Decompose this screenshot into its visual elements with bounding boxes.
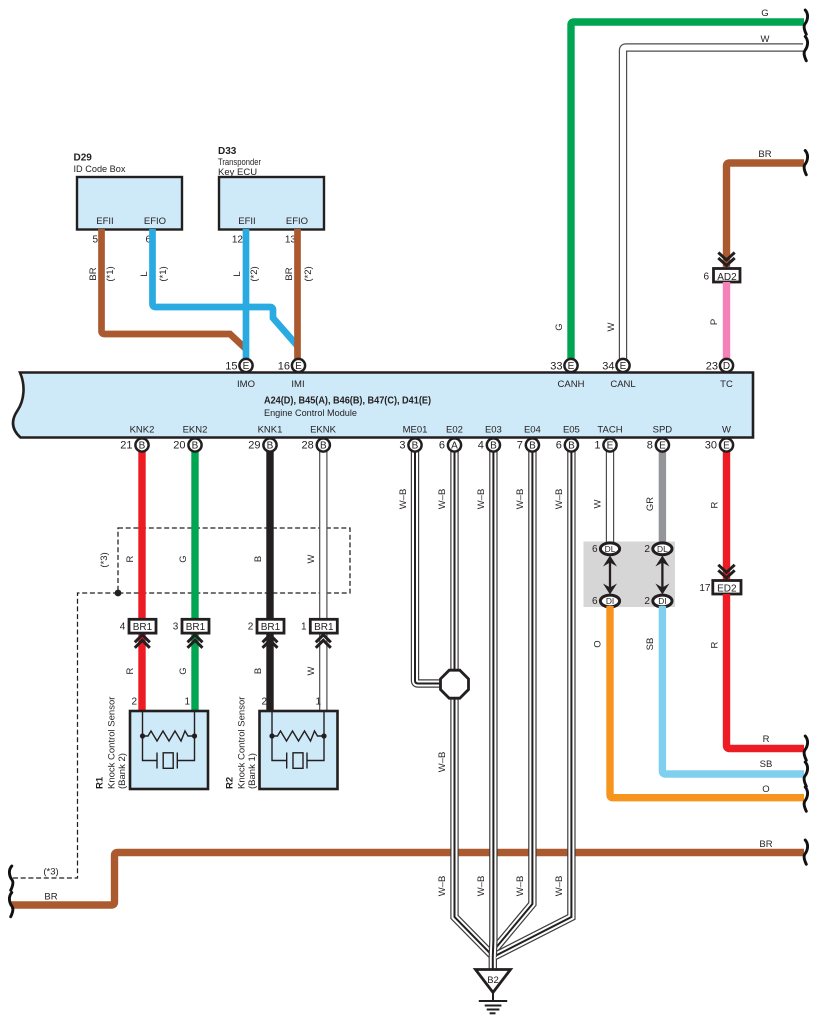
- svg-text:IMI: IMI: [291, 379, 304, 390]
- svg-text:GR: GR: [645, 497, 656, 511]
- svg-text:6: 6: [439, 440, 445, 452]
- svg-text:ED2: ED2: [717, 583, 737, 594]
- wire B KNK1: [266, 445, 273, 711]
- wire O from DI to page edge: [610, 606, 804, 798]
- svg-text:W–B: W–B: [437, 876, 448, 897]
- break mark SB: [804, 762, 808, 786]
- pin circle 7 B: [517, 438, 539, 451]
- svg-text:5: 5: [92, 235, 98, 246]
- wire R from ED2 to page edge: [727, 594, 805, 749]
- svg-text:E02: E02: [446, 425, 463, 436]
- svg-text:29: 29: [248, 440, 260, 452]
- svg-text:DI: DI: [658, 596, 666, 606]
- svg-text:TACH: TACH: [597, 425, 622, 436]
- svg-text:L: L: [232, 271, 243, 276]
- svg-text:BR1: BR1: [314, 622, 334, 633]
- svg-text:SB: SB: [760, 759, 773, 770]
- svg-text:EFIO: EFIO: [144, 216, 166, 227]
- chevron arrow BR1-3: [188, 635, 203, 648]
- svg-text:DL: DL: [657, 544, 668, 554]
- svg-text:7: 7: [517, 440, 523, 452]
- junction octagon: [441, 670, 469, 698]
- svg-text:BR: BR: [88, 267, 99, 280]
- svg-text:E: E: [607, 441, 614, 452]
- svg-text:W–B: W–B: [437, 752, 448, 773]
- svg-text:B2: B2: [487, 975, 499, 986]
- pin circle 6 A: [439, 438, 461, 451]
- wire W CANL to page edge (white wire): [623, 48, 803, 361]
- svg-text:R: R: [710, 501, 721, 508]
- svg-text:12: 12: [232, 235, 244, 246]
- pin circle 28 B: [302, 438, 330, 451]
- svg-text:E: E: [243, 361, 250, 372]
- svg-text:2: 2: [644, 596, 650, 607]
- break mark BR top right: [804, 151, 808, 175]
- wire W-B below junction to ground: [455, 696, 493, 970]
- svg-text:E03: E03: [485, 425, 502, 436]
- svg-text:34: 34: [602, 361, 614, 373]
- dashed shield wire to page edge: [12, 593, 118, 878]
- svg-text:3: 3: [399, 440, 405, 452]
- pin circle 20 B: [173, 438, 201, 451]
- svg-text:W: W: [722, 425, 731, 436]
- svg-text:DI: DI: [606, 596, 614, 606]
- svg-text:(Bank 1): (Bank 1): [247, 753, 258, 789]
- svg-text:R: R: [125, 555, 136, 562]
- svg-text:B: B: [253, 668, 264, 674]
- svg-text:23: 23: [706, 361, 718, 373]
- svg-text:B: B: [412, 441, 419, 452]
- wire W TACH: [606, 445, 614, 545]
- pin circle 15 E: [225, 359, 252, 373]
- piezo element inside R1: [143, 736, 195, 769]
- wire BR bottom to right page edge: [11, 853, 804, 906]
- svg-text:4: 4: [120, 622, 126, 633]
- svg-text:B: B: [490, 441, 497, 452]
- svg-text:ME01: ME01: [403, 425, 428, 436]
- break mark BR bottom right: [804, 840, 808, 864]
- break mark R: [804, 736, 808, 760]
- svg-text:R: R: [125, 667, 136, 674]
- connector BR1 pin 3: [173, 619, 209, 633]
- pin circle 3 B: [399, 438, 421, 451]
- wire P from AD2 to TC: [723, 282, 730, 360]
- svg-text:2: 2: [248, 622, 254, 633]
- pin circle 16 E: [278, 359, 305, 373]
- chevron arrow into ED2: [718, 565, 734, 578]
- svg-text:B: B: [253, 556, 264, 562]
- svg-text:6: 6: [556, 440, 562, 452]
- svg-text:DL: DL: [605, 544, 616, 554]
- wire G CANH to page edge: [571, 22, 804, 360]
- wire R KNK2: [138, 445, 145, 711]
- svg-text:G: G: [178, 555, 189, 562]
- wire GR SPD: [659, 445, 666, 545]
- wire BR to AD2: [727, 163, 805, 267]
- wire W-B ME01: [415, 445, 442, 684]
- wire W EKNK (white wire): [319, 445, 327, 711]
- svg-text:(*3): (*3): [99, 552, 110, 567]
- svg-text:2: 2: [261, 697, 267, 708]
- svg-text:3: 3: [173, 622, 179, 633]
- svg-text:15: 15: [225, 361, 237, 373]
- pin circle 1 E (TACH): [594, 438, 616, 451]
- svg-text:EKN2: EKN2: [183, 425, 208, 436]
- svg-text:A: A: [451, 441, 458, 452]
- connector DL pin 2 (SPD): [644, 543, 672, 555]
- chevron arrow into AD2: [718, 253, 734, 266]
- svg-text:B: B: [320, 441, 327, 452]
- svg-text:O: O: [762, 784, 769, 795]
- svg-text:KNK2: KNK2: [130, 425, 155, 436]
- svg-text:EFIO: EFIO: [286, 216, 308, 227]
- pin circle 23 D: [706, 359, 733, 373]
- svg-text:B: B: [267, 441, 274, 452]
- connector ED2 pin 17: [699, 581, 741, 595]
- wire R from W pin to ED2: [723, 445, 730, 580]
- svg-text:E: E: [568, 361, 575, 372]
- svg-text:W–B: W–B: [554, 876, 565, 897]
- svg-text:W–B: W–B: [515, 489, 526, 510]
- svg-text:2: 2: [644, 544, 650, 555]
- svg-text:E: E: [295, 361, 302, 372]
- connector DI pin 6 (TACH): [592, 595, 620, 607]
- svg-text:W: W: [306, 666, 317, 675]
- svg-text:BR: BR: [758, 149, 771, 160]
- chevron arrow BR1-1: [316, 635, 331, 648]
- pin circle 21 B: [120, 438, 148, 451]
- svg-text:B: B: [529, 441, 536, 452]
- svg-text:20: 20: [173, 440, 185, 452]
- label L (*2): [232, 266, 260, 281]
- svg-text:30: 30: [705, 440, 717, 452]
- pin circle 8 E (SPD): [647, 438, 669, 451]
- svg-text:EFII: EFII: [96, 216, 113, 227]
- svg-text:W–B: W–B: [515, 876, 526, 897]
- svg-text:D: D: [723, 361, 730, 372]
- break mark BR bottom left: [9, 893, 13, 917]
- svg-text:IMO: IMO: [237, 379, 255, 390]
- wire L (*2) from D33 EFII to ECM pin15 IMO: [243, 229, 250, 360]
- svg-text:D29: D29: [74, 153, 93, 164]
- svg-text:BR1: BR1: [186, 622, 206, 633]
- svg-text:Engine Control Module: Engine Control Module: [264, 408, 357, 419]
- dashed shield box: [118, 528, 350, 593]
- chevron arrow BR1-2: [263, 635, 278, 648]
- ground symbol hatches: [479, 993, 507, 1014]
- chevron arrow BR1-4: [135, 635, 150, 648]
- svg-text:(*1): (*1): [158, 266, 169, 281]
- connector BR1 pin 1: [301, 619, 337, 633]
- double arrow TACH: [603, 556, 617, 595]
- svg-text:4: 4: [478, 440, 484, 452]
- svg-text:R: R: [710, 641, 721, 648]
- svg-text:E04: E04: [524, 425, 541, 436]
- svg-text:8: 8: [647, 440, 653, 452]
- label BR (*2): [284, 266, 314, 281]
- gray panel: [584, 542, 676, 608]
- svg-text:E05: E05: [563, 425, 580, 436]
- ground triangle B2: [476, 970, 511, 993]
- connector BR1 pin 4: [120, 619, 156, 633]
- svg-text:33: 33: [550, 361, 562, 373]
- svg-text:21: 21: [120, 440, 132, 452]
- svg-text:E: E: [723, 441, 730, 452]
- svg-text:W: W: [306, 554, 317, 563]
- connector DL pin 6 (TACH): [592, 543, 620, 555]
- wire G EKN2: [191, 445, 198, 711]
- wire W-B E04: [494, 445, 532, 950]
- svg-text:SB: SB: [645, 638, 656, 651]
- box D33 Transponder Key ECU: [218, 146, 324, 230]
- svg-text:W–B: W–B: [476, 876, 487, 897]
- break mark O: [804, 787, 808, 811]
- svg-text:Knock Control Sensor: Knock Control Sensor: [237, 697, 248, 789]
- pin circle 30 E (W): [705, 438, 733, 451]
- sensor R2 Knock Control Sensor (Bank 1): [225, 697, 338, 789]
- svg-text:W–B: W–B: [398, 489, 409, 510]
- svg-text:KNK1: KNK1: [258, 425, 283, 436]
- svg-text:BR: BR: [44, 892, 57, 903]
- wire W-B E05: [495, 445, 571, 956]
- wire SB from DI to page edge: [662, 606, 804, 774]
- svg-text:6: 6: [703, 272, 709, 283]
- svg-text:R: R: [763, 734, 770, 745]
- svg-text:17: 17: [699, 583, 711, 594]
- box D29 ID Code Box: [74, 153, 183, 230]
- break mark dashed left: [9, 866, 13, 890]
- double arrow SPD: [655, 556, 669, 595]
- svg-text:(*3): (*3): [43, 867, 58, 878]
- svg-text:W–B: W–B: [476, 489, 487, 510]
- wire BR (*1) from D29 pin5 to ECM IMO: [102, 229, 247, 349]
- connector DI pin 2 (SPD): [644, 595, 672, 607]
- pin circle 4 B: [478, 438, 500, 451]
- svg-text:16: 16: [278, 361, 290, 373]
- svg-text:TC: TC: [720, 379, 733, 390]
- connector AD2 pin 6: [703, 269, 740, 283]
- svg-text:W–B: W–B: [554, 489, 565, 510]
- svg-text:G: G: [178, 667, 189, 674]
- connector BR1 pin 2: [248, 619, 284, 633]
- svg-text:CANH: CANH: [558, 379, 585, 390]
- svg-text:A24(D), B45(A), B46(B), B47(C): A24(D), B45(A), B46(B), B47(C), D41(E): [264, 396, 431, 407]
- sensor R1 Knock Control Sensor (Bank 2): [95, 697, 209, 789]
- junction dot on dashed box: [115, 590, 122, 597]
- svg-text:W: W: [606, 322, 617, 331]
- svg-text:G: G: [761, 8, 768, 19]
- svg-text:R1: R1: [95, 776, 106, 789]
- wire BR (*2) from D33 EFIO to ECM pin16 IMI: [294, 229, 301, 360]
- svg-text:Knock Control Sensor: Knock Control Sensor: [107, 697, 118, 789]
- svg-text:(*2): (*2): [303, 266, 314, 281]
- svg-text:1: 1: [594, 440, 600, 452]
- node dots R1: [140, 733, 197, 738]
- label L (*1): [139, 266, 169, 281]
- node dots R2: [269, 733, 326, 738]
- svg-text:E: E: [620, 361, 627, 372]
- svg-text:2: 2: [131, 697, 137, 708]
- label BR (*1): [88, 266, 116, 281]
- svg-text:B: B: [139, 441, 146, 452]
- svg-text:(*1): (*1): [105, 266, 116, 281]
- svg-text:28: 28: [302, 440, 314, 452]
- svg-text:B: B: [568, 441, 575, 452]
- break mark W: [804, 37, 808, 61]
- svg-text:BR1: BR1: [133, 622, 153, 633]
- svg-text:SPD: SPD: [653, 425, 673, 436]
- svg-text:BR1: BR1: [261, 622, 281, 633]
- svg-text:W–B: W–B: [437, 489, 448, 510]
- svg-text:(*2): (*2): [249, 266, 260, 281]
- pin circle 34 E: [602, 359, 629, 373]
- svg-text:EFII: EFII: [238, 216, 255, 227]
- pin circle 6 B (E05): [556, 438, 578, 451]
- svg-text:G: G: [554, 323, 565, 330]
- wire W-B E03: [489, 445, 498, 957]
- wire W-B E02: [450, 445, 458, 672]
- svg-text:L: L: [139, 271, 150, 276]
- piezo element inside R2: [272, 736, 324, 769]
- wire L (*1) from D29 pin6 to ECM IMI: [153, 229, 298, 346]
- svg-text:1: 1: [315, 697, 321, 708]
- svg-text:AD2: AD2: [717, 272, 737, 283]
- svg-text:6: 6: [592, 544, 598, 555]
- svg-text:O: O: [593, 640, 604, 647]
- ECM box A24/B45/B46/B47/D41: [13, 373, 753, 438]
- resistor inside R2: [272, 711, 324, 741]
- svg-text:P: P: [709, 319, 720, 325]
- pin circle 29 B: [248, 438, 276, 451]
- svg-text:6: 6: [592, 596, 598, 607]
- svg-text:BR: BR: [284, 267, 295, 280]
- svg-text:1: 1: [301, 622, 307, 633]
- resistor inside R1: [143, 711, 195, 741]
- svg-text:1: 1: [184, 697, 190, 708]
- svg-text:B: B: [192, 441, 199, 452]
- svg-text:W: W: [761, 34, 770, 45]
- svg-text:E: E: [659, 441, 666, 452]
- svg-text:BR: BR: [759, 839, 772, 850]
- svg-text:(Bank 2): (Bank 2): [117, 753, 128, 789]
- svg-text:ID Code Box: ID Code Box: [74, 164, 126, 175]
- pin circle 33 E: [550, 359, 577, 373]
- break mark G: [804, 10, 808, 34]
- svg-text:R2: R2: [225, 777, 236, 789]
- svg-text:CANL: CANL: [610, 379, 635, 390]
- svg-text:Key ECU: Key ECU: [218, 167, 257, 178]
- svg-text:W: W: [593, 499, 604, 508]
- svg-text:D33: D33: [218, 146, 237, 157]
- svg-text:EKNK: EKNK: [310, 425, 337, 436]
